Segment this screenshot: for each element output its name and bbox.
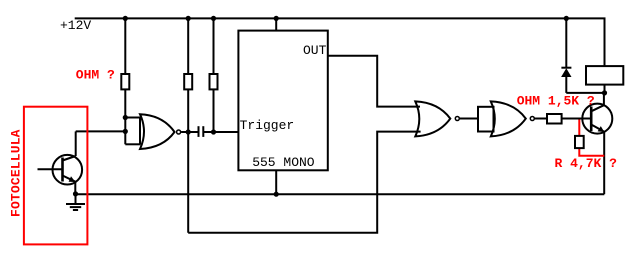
svg-text:FOTOCELLULA: FOTOCELLULA xyxy=(9,129,24,217)
svg-text:OUT: OUT xyxy=(303,43,327,58)
svg-text:+12V: +12V xyxy=(60,18,91,33)
svg-text:OHM ?: OHM ? xyxy=(76,68,115,83)
svg-text:Trigger: Trigger xyxy=(240,118,295,133)
svg-text:R 4,7K ?: R 4,7K ? xyxy=(555,156,618,171)
svg-text:OHM 1,5K ?: OHM 1,5K ? xyxy=(517,93,595,108)
svg-text:555 MONO: 555 MONO xyxy=(252,155,315,170)
